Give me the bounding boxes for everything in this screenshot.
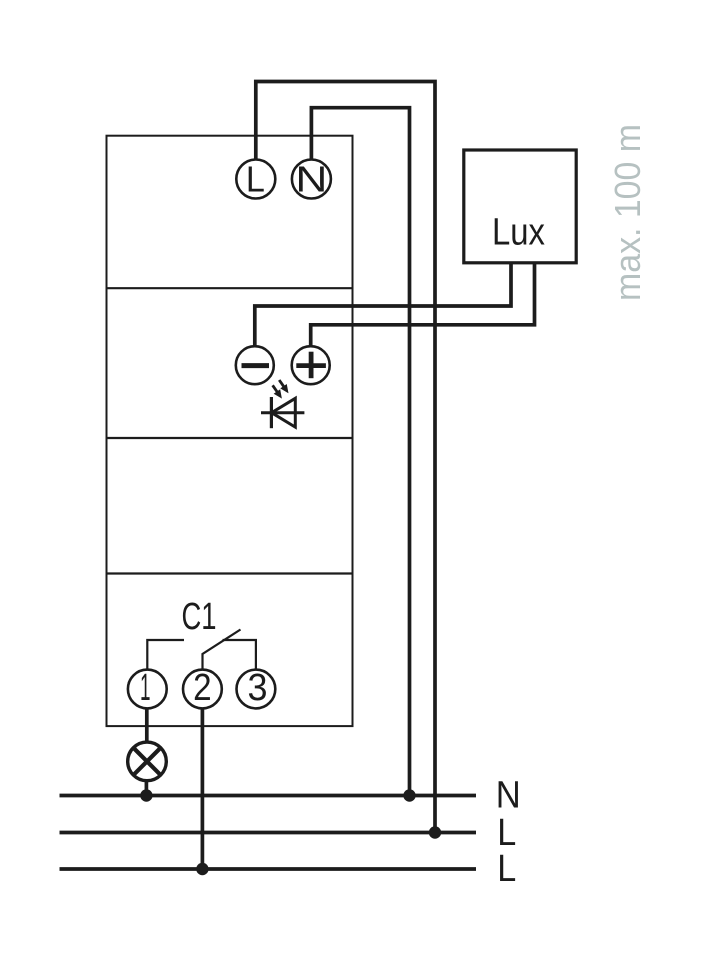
terminal L [236,160,275,199]
svg-text:1: 1 [140,667,151,709]
lamp E1 [128,742,167,781]
wire N terminal to N bus [311,108,409,796]
svg-text:N: N [496,775,521,817]
junction dot terminal 2 to L bus [196,863,208,875]
junction dot L wire to L bus [429,826,441,838]
svg-text:2: 2 [193,667,212,709]
svg-text:Lux: Lux [492,212,545,254]
wire plus terminal to Lux sensor [311,262,535,346]
terminal plus [292,346,330,384]
junction dot lamp to N bus [140,789,152,801]
relay contact C1 fixed side terminal 3 [223,640,256,670]
L bus line 1 [60,831,477,835]
wire L terminal to L bus [256,82,435,833]
terminal 3 [237,670,276,709]
terminal N [292,160,331,199]
device box [107,136,353,726]
svg-text:3: 3 [248,667,268,709]
svg-text:L: L [497,848,516,890]
svg-text:max. 100 m: max. 100 m [607,124,648,301]
L bus line 2 [60,867,477,871]
device section divider 3 [107,572,353,574]
device section divider 1 [107,287,353,289]
relay contact C1 fixed side terminal 1 [147,640,184,670]
relay contact C1 blade from terminal 2 [203,630,241,670]
N bus line [60,794,477,798]
Lux sensor box [464,150,576,263]
wire minus terminal to Lux sensor [255,262,511,346]
device section divider 2 [107,437,353,439]
svg-text:C1: C1 [182,596,217,638]
svg-text:L: L [246,158,265,199]
svg-text:N: N [295,158,327,199]
terminal 2 [183,670,222,709]
wire terminal 2 to L bus [201,708,205,869]
wire lamp to N bus [145,781,149,796]
terminal 1 [128,670,167,709]
wire terminal 1 to lamp [145,708,149,742]
photodiode D1 [261,380,304,428]
junction dot N wire to N bus [403,789,415,801]
terminal minus [236,346,274,384]
